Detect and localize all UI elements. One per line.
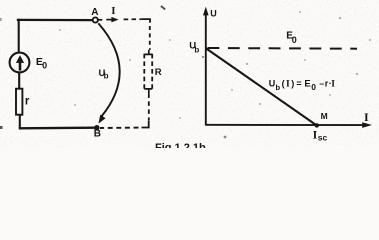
svg-text:E: E — [304, 78, 310, 89]
svg-text:0: 0 — [311, 82, 316, 92]
svg-text:U: U — [210, 8, 217, 18]
svg-text:A: A — [91, 7, 98, 18]
svg-text:=: = — [296, 78, 301, 88]
svg-text:M: M — [321, 111, 328, 121]
svg-text:B: B — [94, 129, 101, 140]
svg-text:0: 0 — [292, 35, 297, 45]
svg-text:sc: sc — [318, 133, 328, 143]
svg-text:b: b — [194, 45, 199, 54]
svg-text:Fig.1.2.1b: Fig.1.2.1b — [155, 142, 206, 148]
svg-text:R: R — [155, 67, 162, 78]
svg-text:r: r — [25, 95, 30, 107]
svg-text:U: U — [269, 78, 276, 88]
svg-text:I: I — [331, 79, 335, 89]
svg-text:–: – — [319, 78, 324, 88]
svg-text:I: I — [111, 5, 115, 17]
svg-text:b: b — [276, 83, 281, 92]
svg-text:): ) — [291, 78, 294, 88]
svg-text:I: I — [364, 110, 369, 124]
svg-text:0: 0 — [42, 61, 47, 71]
svg-text:b: b — [104, 71, 109, 80]
svg-text:(: ( — [282, 78, 285, 88]
svg-text:I: I — [286, 79, 290, 89]
